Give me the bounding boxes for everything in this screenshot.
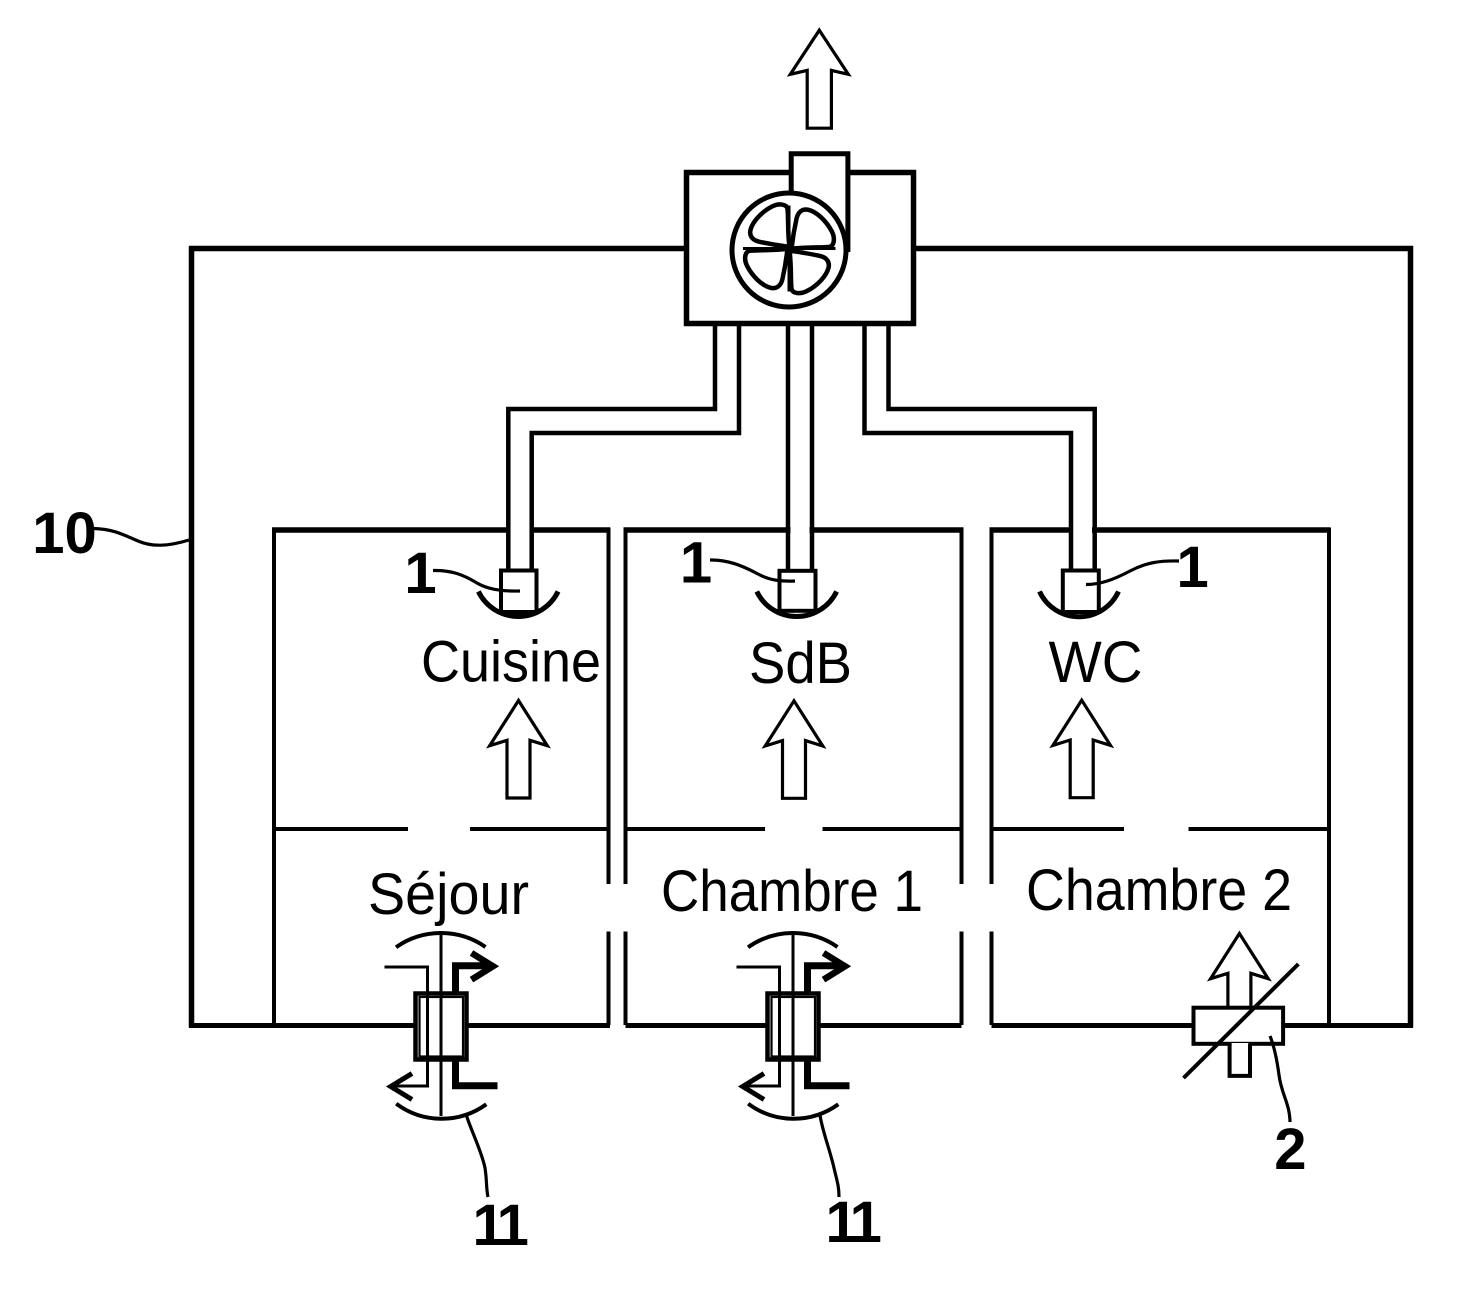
svg-text:Chambre 1: Chambre 1 <box>661 859 923 924</box>
fan outlet chimney <box>789 151 850 251</box>
air transfer unit 11 (Sejour) <box>385 933 498 1119</box>
leader line for 1 (WC) <box>1086 561 1179 585</box>
fan impeller blades <box>743 206 836 292</box>
leader line for 2 <box>1270 1036 1290 1122</box>
room box 3 divider wall <box>992 827 1331 831</box>
vent arc (Cuisine) <box>478 592 558 617</box>
vent arc (SdB) <box>757 592 837 617</box>
closed air inlet 2 (Chambre 2) <box>1184 934 1299 1079</box>
room box 3 walls (WC / Chambre 2) <box>990 528 1331 1026</box>
leader line for 11 (Sejour) <box>466 1114 488 1197</box>
leader line for 11 (Chambre 1) <box>820 1115 839 1197</box>
svg-text:1: 1 <box>404 541 436 606</box>
airflow arrow (WC) <box>1053 700 1111 798</box>
room box 2 divider wall <box>626 827 964 831</box>
svg-text:Cuisine: Cuisine <box>421 630 601 695</box>
svg-text:10: 10 <box>32 501 97 566</box>
leader line for 10 <box>94 529 189 546</box>
fan volute circle <box>732 193 846 307</box>
svg-text:11: 11 <box>473 1193 528 1258</box>
leader line for 1 (Cuisine) <box>433 570 520 591</box>
air transfer unit 11 (Chambre 1) <box>737 933 850 1119</box>
svg-text:WC: WC <box>1049 630 1143 695</box>
vent arc (WC) <box>1040 592 1119 617</box>
outer duct network enclosure 10 <box>189 246 1413 1028</box>
svg-text:Séjour: Séjour <box>368 862 529 927</box>
duct to SdB vent <box>788 324 812 572</box>
extraction vent 1 (Cuisine) <box>501 571 537 613</box>
exhaust air arrow (top) <box>790 30 848 128</box>
svg-text:SdB: SdB <box>749 631 852 696</box>
room box 2 walls (SdB / Chambre 1) <box>624 528 964 1026</box>
svg-text:Chambre 2: Chambre 2 <box>1026 858 1292 923</box>
room box 1 walls (Cuisine / Sejour) <box>272 528 610 1026</box>
leader line for 1 (SdB) <box>710 560 795 581</box>
airflow arrow (SdB) <box>765 701 823 799</box>
extraction vent 1 (WC) <box>1063 571 1099 613</box>
room box 1 divider wall <box>274 827 610 831</box>
duct to Cuisine vent <box>508 324 739 572</box>
svg-text:11: 11 <box>826 1190 881 1255</box>
fan unit box <box>687 173 914 324</box>
svg-text:2: 2 <box>1274 1117 1306 1182</box>
duct to WC vent <box>865 324 1095 572</box>
airflow arrow (Cuisine) <box>490 701 548 799</box>
svg-text:1: 1 <box>680 531 712 596</box>
extraction vent 1 (SdB) <box>780 571 816 611</box>
svg-text:1: 1 <box>1176 535 1208 600</box>
